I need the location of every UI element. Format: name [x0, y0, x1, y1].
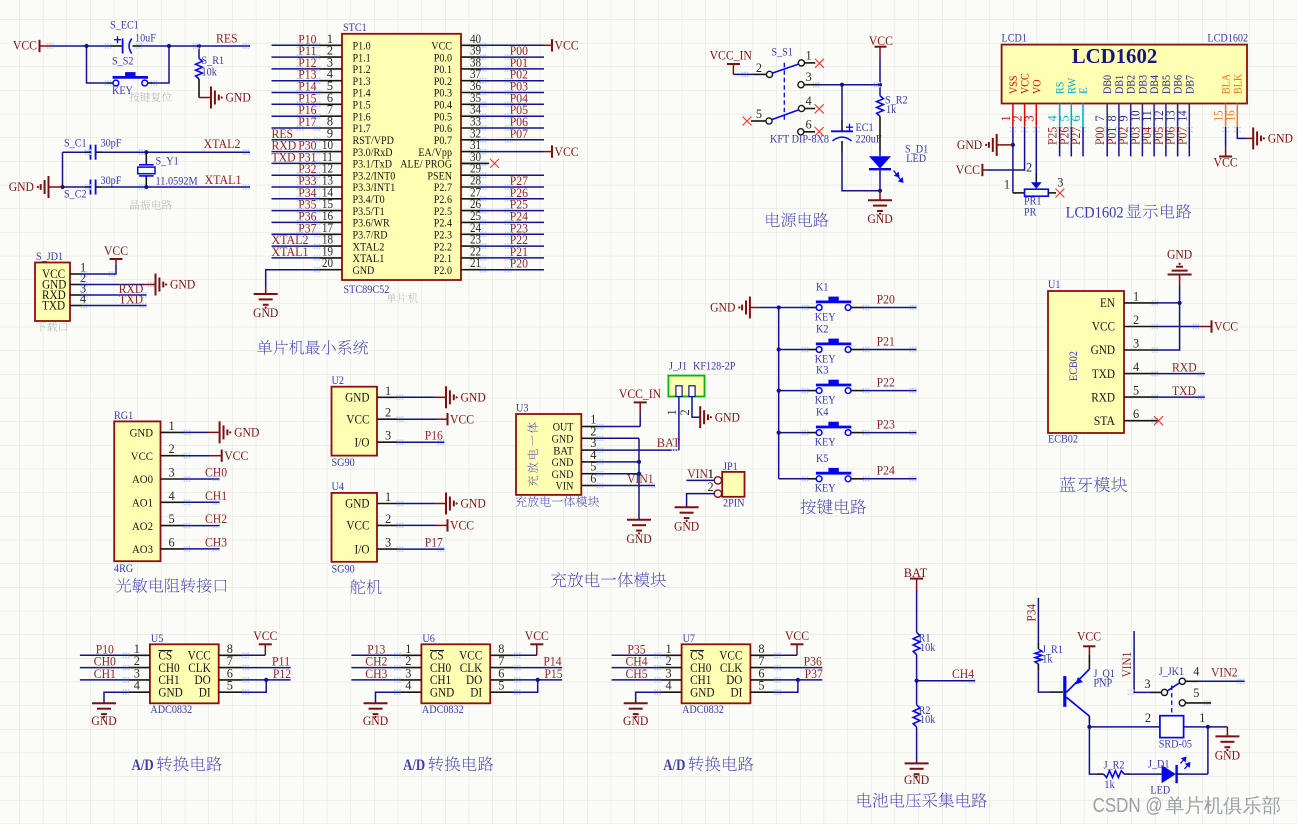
svg-text:6: 6 — [169, 535, 175, 549]
wire to VCC column — [842, 84, 880, 86]
wire down to switch right side — [153, 46, 170, 83]
push-button K5 — [816, 468, 851, 482]
svg-text:1: 1 — [1133, 289, 1139, 303]
wire key K4 to net P23 — [851, 432, 864, 434]
svg-text:VSS: VSS — [1008, 76, 1020, 95]
svg-text:GND: GND — [353, 265, 375, 277]
svg-text:3: 3 — [1144, 677, 1150, 691]
section title 单片机最小系统 (MCU minimum system) — [257, 340, 368, 355]
ADC module U6 body — [421, 644, 490, 703]
wire P35 row (U7) — [612, 654, 661, 656]
wire and net label P03 — [1141, 127, 1143, 156]
wire DI tie to DO (U6) — [514, 680, 538, 692]
svg-text:5: 5 — [498, 679, 504, 693]
svg-text:DB0: DB0 — [1102, 75, 1114, 94]
wire XTAL2 left segment — [63, 151, 86, 153]
pin 30 no-connect — [461, 162, 489, 164]
wire P12 and net label P12 — [272, 68, 321, 70]
svg-text:P2.0: P2.0 — [434, 265, 453, 277]
wire P15 and net label P15 — [272, 103, 321, 105]
section title 舵机 (servo) — [350, 579, 381, 594]
svg-text:P0.2: P0.2 — [434, 76, 452, 88]
servo module U4 body — [332, 493, 378, 562]
wire P16 and net label P16 — [272, 115, 321, 117]
svg-text:P1.2: P1.2 — [353, 64, 371, 76]
power port VCC (pin 31) — [551, 145, 553, 157]
svg-text:CH1: CH1 — [94, 666, 116, 681]
svg-text:XTAL2: XTAL2 — [353, 241, 385, 253]
svg-text:P24: P24 — [877, 463, 896, 478]
svg-text:VCC_IN: VCC_IN — [619, 386, 662, 401]
LED J_D1 — [1162, 765, 1177, 783]
relay contact pin 5 — [1179, 700, 1185, 706]
switch S_S1 pin 3 — [798, 82, 804, 88]
wire bus to key K1 — [779, 307, 808, 309]
wire JP1 pin1 VIN1 — [686, 479, 714, 481]
svg-text:VIN1: VIN1 — [1120, 652, 1134, 678]
svg-text:K2: K2 — [816, 324, 829, 336]
svg-text:VCC: VCC — [785, 628, 809, 643]
svg-text:EA/Vpp: EA/Vpp — [418, 147, 452, 159]
switch S_S1 dashed link — [783, 63, 785, 121]
wire P0.5 row and net label P05 — [480, 115, 544, 117]
wire P10 and net label P10 — [272, 44, 321, 46]
svg-text:ADC0832: ADC0832 — [422, 704, 464, 716]
node junction DO/DI (U6) — [536, 678, 540, 682]
wire P0.2 row and net label P02 — [480, 80, 544, 82]
ADC module U7 body — [682, 644, 751, 703]
wire P2.2 row and net label P22 — [480, 245, 544, 247]
wire RES row and net label RES — [272, 139, 321, 141]
svg-text:VCC: VCC — [104, 243, 128, 258]
svg-text:6: 6 — [1069, 115, 1083, 121]
svg-text:XTAL1: XTAL1 — [272, 244, 309, 259]
svg-text:DB5: DB5 — [1161, 75, 1173, 94]
wire bus to key K2 — [779, 349, 808, 351]
wire CH1 row (U5) — [80, 679, 129, 681]
svg-text:ADC0832: ADC0832 — [150, 704, 192, 716]
svg-text:GND: GND — [904, 772, 929, 787]
section title 蓝牙模块 (bluetooth module) — [1060, 477, 1127, 493]
svg-text:P07: P07 — [510, 126, 529, 141]
node junction key K1 — [777, 305, 781, 309]
wire P10 row (U5) — [80, 654, 129, 656]
wire TXD pin 4 — [1158, 373, 1205, 375]
wire pin 4 to net VIN2 — [1185, 680, 1198, 682]
pot pin 3 no-connect — [1048, 192, 1056, 194]
svg-text:LCD1602: LCD1602 — [1066, 205, 1124, 222]
potentiometer PR1 — [1025, 182, 1049, 196]
svg-text:U6: U6 — [422, 633, 435, 645]
node junction key K4 — [777, 431, 781, 435]
wire P0.6 row and net label P06 — [480, 127, 544, 129]
wire DO to net P12 (U5) — [242, 679, 290, 681]
overline CS (U6) — [430, 650, 444, 652]
svg-text:J_D1: J_D1 — [1148, 759, 1170, 771]
svg-text:CH5: CH5 — [626, 666, 648, 681]
wire P2.3 row and net label P23 — [480, 233, 544, 235]
svg-text:VCC: VCC — [555, 38, 579, 53]
LED S_D1 arrows — [894, 171, 897, 174]
svg-text:P34: P34 — [1025, 603, 1039, 621]
caption 充放电一体模块 (small) — [516, 496, 600, 507]
wire pin 5 stub — [1185, 702, 1211, 704]
svg-text:3: 3 — [1133, 337, 1139, 351]
svg-text:GND: GND — [623, 713, 648, 728]
svg-text:STC89C52: STC89C52 — [344, 284, 390, 296]
svg-text:GND: GND — [345, 391, 369, 405]
svg-text:1: 1 — [1004, 178, 1010, 192]
svg-text:P1.4: P1.4 — [353, 88, 372, 100]
svg-text:AO3: AO3 — [132, 542, 153, 556]
svg-text:GND: GND — [710, 300, 735, 315]
svg-text:AO2: AO2 — [132, 519, 153, 533]
wire VCC pin8 to port (U7) — [774, 654, 797, 656]
ground GND (U3) — [627, 520, 651, 535]
wire key K1 to net P20 — [851, 307, 864, 309]
svg-text:P22: P22 — [877, 374, 895, 389]
ground GND (U5) — [92, 703, 116, 718]
node junction EN/GND — [1178, 301, 1182, 305]
svg-text:DB2: DB2 — [1126, 75, 1138, 94]
svg-text:RXD: RXD — [1172, 360, 1197, 375]
right rail up to coil node — [1207, 727, 1209, 774]
wire BLK to ground — [1237, 127, 1245, 138]
wire EC1 bottom to ground rail — [841, 141, 843, 153]
wire pin1 to ground — [184, 431, 208, 433]
caption 单片机 (MCU) — [386, 293, 418, 303]
switch S_S1 pin 1 — [798, 60, 804, 66]
svg-text:P2.2: P2.2 — [434, 241, 452, 253]
wire J_R1 to transistor base — [1037, 664, 1039, 670]
svg-text:VCC: VCC — [956, 162, 980, 177]
svg-text:VCC: VCC — [1092, 320, 1115, 334]
svg-text:VCC: VCC — [131, 449, 153, 463]
svg-text:PSEN: PSEN — [427, 170, 452, 182]
svg-text:6: 6 — [1133, 407, 1139, 421]
switch S_S1 pin 4 — [798, 105, 804, 111]
push-button K1 — [816, 297, 851, 311]
svg-text:TXD: TXD — [119, 292, 143, 307]
wire P3.5 row and net label P35 — [272, 210, 321, 212]
svg-text:1: 1 — [1199, 711, 1205, 725]
svg-text:U3: U3 — [516, 403, 529, 415]
svg-text:GND: GND — [552, 434, 574, 446]
svg-text:TXD: TXD — [42, 299, 65, 313]
wire P3.4 row and net label P34 — [272, 198, 321, 200]
svg-text:PNP: PNP — [1094, 678, 1113, 690]
ground GND (LCD) — [985, 134, 997, 156]
power port VCC (RG1) — [221, 450, 223, 462]
LCD1602 module body — [1002, 45, 1247, 104]
svg-text:2: 2 — [1145, 711, 1151, 725]
ground GND (JP1) — [675, 507, 699, 522]
section title 电池电压采集电路 (battery voltage sampling) — [858, 793, 987, 808]
wire AO3 to net CH3 — [184, 548, 220, 550]
svg-text:DB6: DB6 — [1173, 75, 1185, 94]
svg-text:VCC: VCC — [555, 144, 579, 159]
node junction DO/DI (U5) — [264, 678, 268, 682]
svg-text:10k: 10k — [202, 67, 218, 79]
svg-text:A/D: A/D — [132, 757, 154, 774]
svg-text:GND: GND — [552, 469, 574, 481]
svg-text:2: 2 — [169, 442, 175, 456]
svg-text:VCC: VCC — [1077, 629, 1101, 644]
svg-text:EC1: EC1 — [856, 122, 874, 134]
svg-text:GND: GND — [1215, 747, 1240, 762]
wire EN to ground net — [1158, 302, 1180, 304]
capacitor S_C1 30pF — [91, 145, 96, 160]
svg-text:P0.4: P0.4 — [434, 100, 453, 112]
svg-text:P2.5: P2.5 — [434, 206, 453, 218]
resistor J_R2 1k — [1097, 773, 1104, 775]
wire ground net down to pin 3 — [1158, 303, 1180, 350]
wire P14 and net label P14 — [272, 92, 321, 94]
svg-text:P0.3: P0.3 — [434, 88, 453, 100]
svg-text:P07: P07 — [1174, 126, 1189, 145]
wire VCC pin 2 to port — [1158, 326, 1199, 328]
svg-text:J_R2: J_R2 — [1104, 760, 1125, 772]
node junction at RES/S_R1 — [197, 44, 201, 48]
wire CH3 row (U6) — [351, 679, 400, 681]
svg-text:14: 14 — [1175, 110, 1189, 121]
wire XTAL1 row and net label — [272, 257, 321, 259]
wire CLK to net P36 (U7) — [774, 667, 822, 669]
wire node to ground — [1208, 726, 1228, 728]
node junction right of S_EC1 — [167, 44, 171, 48]
node junction CH4 — [915, 679, 919, 683]
svg-text:P3.4/T0: P3.4/T0 — [353, 194, 386, 206]
ground GND (J_J1) — [700, 406, 712, 428]
wire AO0 to net CH0 — [184, 478, 220, 480]
pin 1 no-connect — [804, 62, 815, 64]
node junction below VCC — [878, 83, 882, 87]
svg-text:2: 2 — [678, 409, 692, 415]
svg-text:2: 2 — [1133, 313, 1139, 327]
photoresistor adapter RG1 body — [114, 421, 160, 561]
section caption 按键复位 (key reset) — [129, 92, 171, 102]
power port VCC (U5) — [259, 643, 272, 645]
svg-text:U4: U4 — [332, 481, 345, 493]
svg-text:P1.1: P1.1 — [353, 52, 371, 64]
wire C2 to XTAL1 node — [63, 186, 86, 188]
svg-text:3: 3 — [169, 466, 175, 480]
svg-text:P21: P21 — [877, 333, 895, 348]
svg-text:2PIN: 2PIN — [723, 498, 745, 510]
svg-text:GND: GND — [867, 211, 892, 226]
capacitor S_C2 30pF — [91, 180, 96, 195]
svg-text:EN: EN — [1100, 296, 1115, 310]
ground GND (backlight) — [1253, 127, 1265, 149]
svg-text:OUT: OUT — [553, 422, 574, 434]
svg-text:KEY: KEY — [815, 436, 836, 448]
svg-text:RXD: RXD — [1091, 390, 1115, 404]
wire P3.2 row and net label P32 — [272, 174, 321, 176]
ground GND (relay) — [1215, 736, 1239, 751]
wire P3.0 row, net labels RXD P30 — [272, 151, 321, 153]
wire CLK to net P11 (U5) — [242, 667, 290, 669]
wire XTAL2 to chip — [146, 151, 250, 153]
power port VCC (backlight) — [1219, 156, 1232, 158]
svg-text:P1.7: P1.7 — [353, 123, 372, 135]
wire capacitor right to node — [133, 45, 142, 47]
svg-text:KEY: KEY — [815, 353, 836, 365]
resistor S_R1 — [198, 46, 200, 58]
svg-text:P20: P20 — [510, 256, 528, 271]
switch S_S1 blade 2-1 — [772, 64, 799, 73]
wire CLK to net P14 (U6) — [514, 667, 562, 669]
svg-text:GND: GND — [715, 409, 740, 424]
svg-text:BAT: BAT — [553, 445, 573, 457]
node junction DO/DI (U7) — [796, 678, 800, 682]
wire BLA to VCC port — [1225, 127, 1227, 146]
svg-text:U2: U2 — [332, 375, 345, 387]
ground GND (U2) — [446, 386, 458, 408]
svg-text:GND: GND — [345, 497, 369, 511]
svg-text:GND: GND — [170, 277, 195, 292]
wire GND pin5 — [597, 473, 639, 475]
resistor S_R2 1k — [879, 85, 881, 96]
power port VCC (U7) — [791, 643, 804, 645]
wire VCC pin8 to port (U6) — [514, 654, 537, 656]
svg-text:GND: GND — [690, 685, 714, 699]
transistor J_Q1 PNP — [1063, 669, 1089, 716]
svg-text:DB3: DB3 — [1137, 75, 1149, 94]
switch S_S1 blade 5-4 — [772, 110, 799, 120]
svg-text:5: 5 — [1193, 686, 1199, 700]
wire U4 pin1 to ground — [397, 503, 434, 505]
wire P0.1 row and net label P01 — [480, 68, 544, 70]
svg-text:VCC: VCC — [346, 519, 369, 533]
svg-text:GND: GND — [226, 90, 251, 105]
svg-text:K3: K3 — [816, 365, 829, 377]
svg-text:RES: RES — [216, 31, 238, 46]
overline CS (U7) — [690, 650, 704, 652]
ground GND (MCU) — [254, 294, 278, 309]
svg-text:RW: RW — [1066, 77, 1078, 94]
svg-text:XTAL1: XTAL1 — [205, 172, 242, 187]
wire P2.0 row and net label P20 — [480, 269, 544, 271]
svg-text:GND: GND — [552, 457, 574, 469]
svg-text:P17: P17 — [298, 114, 317, 129]
LED S_D1 — [869, 156, 891, 169]
svg-text:4: 4 — [134, 679, 140, 693]
svg-text:P3.6/WR: P3.6/WR — [353, 218, 391, 230]
svg-text:DB1: DB1 — [1114, 75, 1126, 94]
svg-text:3: 3 — [385, 536, 391, 550]
svg-text:1k: 1k — [1042, 653, 1053, 665]
svg-text:VCC: VCC — [525, 628, 549, 643]
svg-text:LCD1602: LCD1602 — [1072, 44, 1158, 68]
node junction collector — [1087, 725, 1091, 729]
svg-text:P3.5/T1: P3.5/T1 — [353, 206, 385, 218]
wire node to capacitor S_EC1 — [87, 45, 112, 47]
wire CH2 row (U6) — [351, 667, 400, 669]
svg-text:VCC: VCC — [346, 412, 369, 426]
wire collector node down to J_R2 — [1089, 727, 1097, 774]
wire U2 pin1 to ground — [397, 396, 434, 398]
power port VCC (bluetooth) — [1211, 320, 1213, 332]
svg-text:S_EC1: S_EC1 — [110, 20, 139, 32]
wire to net CH4 — [917, 680, 976, 682]
svg-text:GND: GND — [91, 713, 116, 728]
svg-text:ECB02: ECB02 — [1068, 351, 1080, 381]
switch S_S1 pin 2 — [766, 71, 772, 77]
node junction at C2 — [60, 185, 64, 189]
svg-text:1: 1 — [708, 467, 714, 481]
svg-text:AO0: AO0 — [132, 472, 153, 486]
svg-text:GND: GND — [1167, 247, 1192, 262]
power port VCC (U6) — [530, 643, 543, 645]
svg-text:K1: K1 — [816, 282, 828, 294]
wire P3.1 row, net labels TXD P31 — [272, 162, 321, 164]
wire VCC to emitter — [1088, 655, 1090, 669]
capacitor S_EC1 (electrolytic, horizontal) — [114, 36, 132, 53]
node junction at ground rail — [878, 189, 882, 193]
svg-text:U7: U7 — [683, 633, 696, 645]
power port VCC (pin 40) — [551, 39, 553, 51]
svg-text:30pF: 30pF — [101, 175, 122, 187]
wire AO2 to net CH2 — [184, 525, 220, 527]
wire VO pin 3 to pot wiper — [1035, 127, 1037, 173]
svg-text:BAT: BAT — [657, 435, 680, 450]
svg-text:P0.7: P0.7 — [434, 135, 453, 147]
svg-text:GND: GND — [461, 390, 486, 405]
wire pin2 to GND — [82, 284, 145, 286]
wire GND pin4 to ground (U7) — [636, 692, 661, 703]
svg-text:BLA: BLA — [1221, 74, 1233, 94]
svg-text:VCC: VCC — [224, 448, 248, 463]
svg-text:RST/VPD: RST/VPD — [353, 135, 394, 147]
svg-text:KEY: KEY — [815, 483, 836, 495]
svg-text:SG90: SG90 — [332, 457, 356, 469]
wire coil to ground node — [1184, 726, 1208, 728]
wire U4 pin3 to net P17 — [397, 548, 444, 550]
svg-text:4RG: 4RG — [114, 563, 133, 575]
svg-text:STC1: STC1 — [343, 22, 367, 34]
bluetooth module U1 body — [1048, 291, 1124, 433]
wire VCC pin 2 to port — [986, 127, 1025, 170]
svg-text:1k: 1k — [886, 104, 897, 116]
svg-text:5: 5 — [1133, 384, 1139, 398]
wire AO1 to net CH1 — [184, 501, 220, 503]
svg-text:P3.7/RD: P3.7/RD — [353, 230, 388, 242]
wire C1 to crystal node — [96, 151, 102, 153]
wire bus to key K5 — [779, 478, 808, 480]
wire GND pin4 to ground (U5) — [104, 692, 129, 703]
svg-text:3: 3 — [1022, 115, 1036, 121]
wire and net label P04 — [1153, 127, 1155, 156]
svg-text:11.0592M: 11.0592M — [156, 176, 198, 188]
svg-text:DB4: DB4 — [1149, 75, 1161, 94]
wire to net RES — [199, 45, 250, 47]
wire DI tie to DO (U7) — [774, 680, 798, 692]
wire and net label P06 — [1177, 127, 1179, 156]
svg-text:VCC: VCC — [1214, 155, 1238, 170]
svg-text:AO1: AO1 — [132, 496, 153, 510]
wire RXD pin 5 — [1158, 396, 1205, 398]
svg-text:K4: K4 — [816, 407, 829, 419]
left vertical bus to ground — [62, 152, 64, 187]
wire VCC_IN to switch pin 2 — [733, 73, 753, 75]
wire GND pin2 to ground rail — [597, 437, 639, 439]
svg-text:A/D: A/D — [403, 757, 425, 774]
svg-text:2: 2 — [1026, 161, 1032, 175]
svg-text:6: 6 — [590, 472, 596, 486]
node junction key K2 — [777, 347, 781, 351]
svg-text:10k: 10k — [920, 714, 936, 726]
svg-text:P23: P23 — [877, 416, 895, 431]
